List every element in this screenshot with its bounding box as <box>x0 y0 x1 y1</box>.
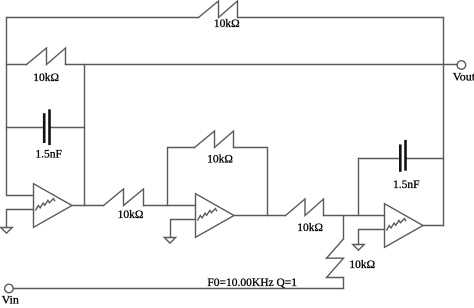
node Vout terminal <box>457 61 466 70</box>
wire rail A <box>84 65 86 206</box>
ground G3 <box>353 245 364 251</box>
svg-text:10kΩ: 10kΩ <box>207 154 233 166</box>
wire top line left segment <box>7 17 199 19</box>
svg-text:10kΩ: 10kΩ <box>214 18 240 30</box>
svg-text:1.5nF: 1.5nF <box>393 179 420 191</box>
svg-text:F0=10.00KHz Q=1: F0=10.00KHz Q=1 <box>207 277 297 289</box>
wire vout line left <box>7 64 27 66</box>
svg-text:1.5nF: 1.5nF <box>35 148 62 160</box>
svg-text:Vout: Vout <box>453 70 474 84</box>
wire R6 bottom lead <box>343 278 345 289</box>
resistor R6 <box>327 239 344 278</box>
resistor R3 <box>104 189 144 206</box>
resistor R4 <box>195 131 234 148</box>
svg-text:10kΩ: 10kΩ <box>349 259 375 271</box>
wire bottom vin line <box>13 288 343 290</box>
wire U1 ground lead <box>7 210 34 228</box>
wire R3 to U2 <box>144 205 196 207</box>
wire U2 ground lead <box>171 220 196 238</box>
resistor R1 <box>199 1 238 18</box>
wire U3 ground lead <box>359 230 385 245</box>
wire U2 out to R5 <box>234 215 286 217</box>
wire left rail <box>7 18 34 196</box>
wire top line right segment <box>238 17 444 19</box>
op-amp U2 <box>196 194 235 238</box>
wire capacitor C2 right lead <box>407 158 444 160</box>
resistor R2 <box>27 48 66 65</box>
wire right rail <box>443 18 445 226</box>
wire R5 to U3 <box>324 215 385 217</box>
ground G2 <box>164 238 175 244</box>
op-amp U3 <box>385 204 424 248</box>
capacitor C2 <box>399 144 402 171</box>
svg-text:Vin: Vin <box>2 293 19 307</box>
capacitor C1 <box>43 113 46 143</box>
op-amp U1 <box>34 184 73 228</box>
wire capacitor C2 left lead <box>359 158 400 160</box>
wire run U1 out to R3 <box>72 205 104 207</box>
wire U3 out <box>423 225 444 227</box>
svg-text:10kΩ: 10kΩ <box>118 209 144 221</box>
resistor R5 <box>286 199 324 216</box>
wire R6 top lead <box>343 216 345 239</box>
wire vout line right <box>66 64 458 66</box>
wire capacitor C2 vertical lead <box>358 159 360 216</box>
svg-text:10kΩ: 10kΩ <box>33 72 59 84</box>
wire R4 loop left vertical <box>168 148 195 206</box>
wire R4 loop right vertical <box>234 148 268 216</box>
svg-text:10kΩ: 10kΩ <box>297 222 323 234</box>
ground G1 <box>1 228 12 234</box>
wire capacitor C1 left lead <box>7 127 43 129</box>
node Vin terminal <box>5 284 14 293</box>
wire capacitor C1 right lead <box>51 127 85 129</box>
